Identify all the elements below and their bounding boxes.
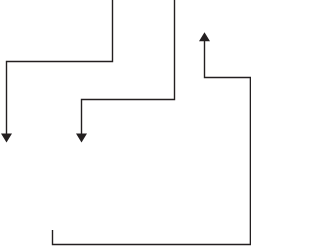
wire arrow2 elbow (from top x=174.5 down, left, down) — [82, 0, 175, 135]
arrowhead arrow1 (down) — [1, 134, 12, 143]
wire arrow1 elbow (from top x=112.5 down, left, down) — [7, 0, 113, 135]
arrowhead arrow2 (down) — [76, 134, 87, 143]
wire arrow3 elbow (from x=52.5 down, right along bottom, up right edge, left, up) — [53, 40, 251, 244]
arrowhead arrow3 (up) — [199, 32, 210, 41]
